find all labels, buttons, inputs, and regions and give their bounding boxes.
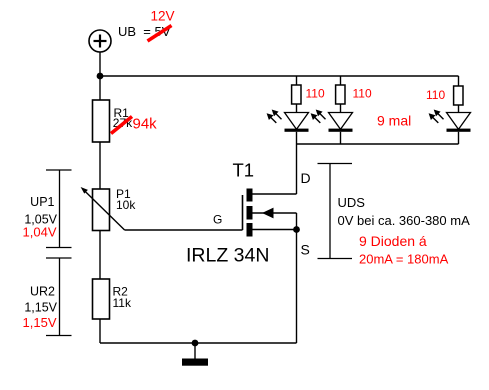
wire top rail (100, 75, 459, 77)
svg-text:D: D (301, 170, 311, 186)
svg-text:UDS: UDS (338, 195, 366, 210)
svg-text:9 Dioden á: 9 Dioden á (359, 233, 427, 249)
svg-text:110: 110 (426, 88, 445, 102)
resistor (110) branch 1 (292, 76, 301, 113)
label UR2 voltages (23, 285, 58, 331)
wire source vertical (296, 213, 298, 343)
svg-text:S: S (301, 242, 310, 258)
label R1 27k (113, 106, 133, 130)
wire bottom rail (100, 342, 297, 344)
measurement bracket UDS (318, 164, 353, 259)
red strikethrough over 27k (111, 117, 132, 134)
svg-text:11k: 11k (113, 296, 132, 310)
svg-text:10k: 10k (116, 198, 136, 212)
svg-text:1,15V: 1,15V (24, 301, 57, 315)
ground (182, 343, 208, 366)
svg-text:0V bei ca. 360-380 mA: 0V bei ca. 360-380 mA (338, 213, 471, 228)
wire from V1 to node A (99, 52, 101, 100)
svg-text:1,04V: 1,04V (23, 225, 57, 240)
red strikethrough over 5V (148, 26, 172, 42)
label UP1 voltages (23, 195, 58, 240)
resistor R1 (93, 100, 110, 142)
label P1 10k (116, 187, 136, 212)
wire P1 to R2 (99, 231, 101, 280)
wire drain vertical (296, 144, 298, 194)
svg-text:110: 110 (306, 87, 325, 101)
wire P1 wiper to gate (125, 229, 243, 231)
svg-text:12V: 12V (151, 9, 175, 24)
wire R2 down to bottom rail (99, 319, 101, 343)
wire LED cathode rail (297, 143, 459, 145)
voltage source V1 (UB) (89, 30, 111, 52)
svg-text:94k: 94k (133, 116, 158, 133)
LED D2 (311, 110, 353, 145)
junction dot at source (293, 226, 300, 233)
svg-text:9 mal: 9 mal (377, 113, 411, 129)
svg-text:IRLZ 34N: IRLZ 34N (186, 245, 269, 267)
svg-text:1,15V: 1,15V (23, 315, 57, 330)
transistor Q1 T1 IRLZ 34N (n-channel MOSFET) (243, 189, 297, 237)
label R2 11k (113, 285, 132, 311)
svg-text:G: G (213, 213, 222, 227)
svg-text:UP1: UP1 (30, 195, 54, 209)
LED D3 (429, 110, 471, 145)
svg-text:T1: T1 (233, 160, 255, 181)
wire R1 to P1 (99, 142, 101, 189)
svg-text:110: 110 (353, 87, 372, 101)
potentiometer P1 (81, 187, 125, 231)
measurement bracket UP1 (46, 170, 72, 248)
svg-text:20mA = 180mA: 20mA = 180mA (359, 252, 449, 267)
node A junction dot (97, 73, 104, 80)
LED D1 (267, 110, 309, 145)
resistor (110) branch 2 (336, 76, 345, 113)
resistor R2 (93, 279, 110, 319)
junction dot at ground node (192, 340, 199, 347)
resistor (110) branch 3 (454, 76, 463, 113)
svg-text:UR2: UR2 (30, 285, 55, 299)
measurement bracket UR2 (46, 258, 72, 336)
